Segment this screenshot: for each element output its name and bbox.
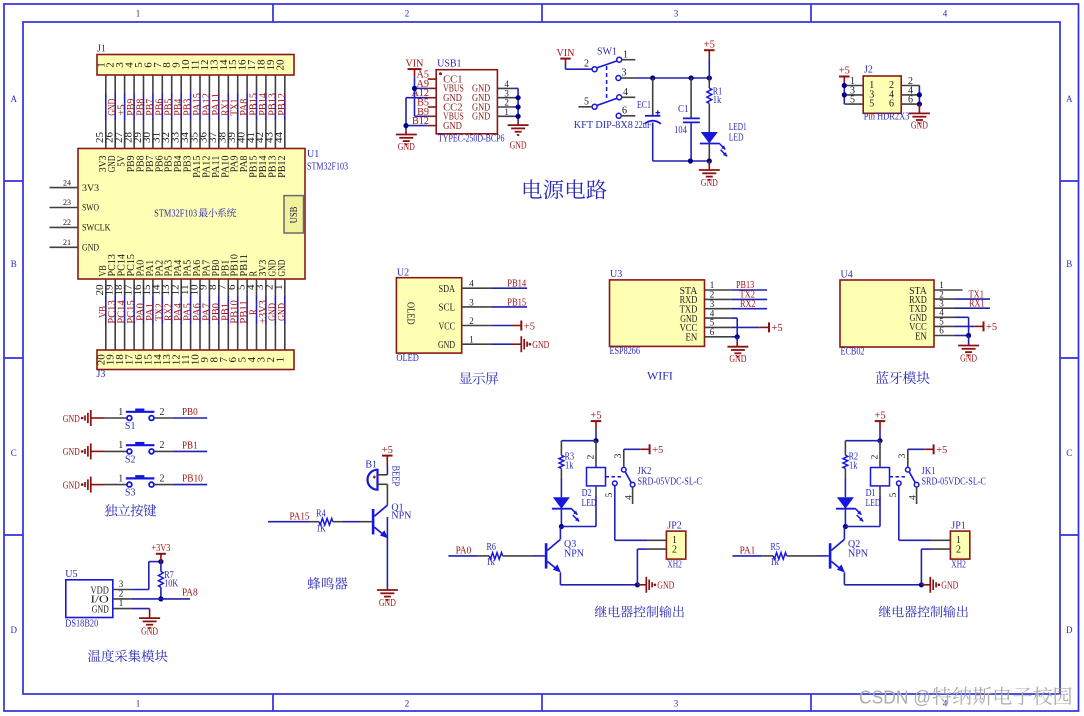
svg-text:GND: GND xyxy=(63,447,80,458)
svg-text:2: 2 xyxy=(870,454,880,459)
svg-text:Pin HDR2X3: Pin HDR2X3 xyxy=(864,112,910,123)
svg-text:4: 4 xyxy=(909,495,919,500)
svg-text:EN: EN xyxy=(686,333,698,344)
svg-text:6: 6 xyxy=(889,99,894,110)
svg-text:NPN: NPN xyxy=(564,549,584,560)
svg-text:R4: R4 xyxy=(316,509,326,520)
svg-text:PB12: PB12 xyxy=(277,93,288,116)
svg-text:+5: +5 xyxy=(772,323,783,334)
svg-text:U2: U2 xyxy=(397,268,409,279)
svg-text:2: 2 xyxy=(405,9,410,19)
svg-text:NPN: NPN xyxy=(391,511,411,522)
svg-text:A: A xyxy=(10,94,17,104)
svg-text:KFT DIP-8X8: KFT DIP-8X8 xyxy=(574,120,633,131)
svg-text:CSDN @: CSDN @ xyxy=(859,687,931,708)
svg-text:LED1: LED1 xyxy=(729,122,747,133)
svg-text:1k: 1k xyxy=(770,557,779,568)
svg-text:WIFI: WIFI xyxy=(647,369,673,383)
svg-text:3: 3 xyxy=(469,297,474,307)
svg-text:24: 24 xyxy=(63,178,71,187)
svg-text:PA1: PA1 xyxy=(740,545,756,556)
svg-text:ECB02: ECB02 xyxy=(841,347,865,358)
svg-text:GND: GND xyxy=(729,354,746,365)
svg-text:44: 44 xyxy=(273,132,285,144)
svg-text:S1: S1 xyxy=(125,421,136,432)
svg-text:23: 23 xyxy=(63,198,71,207)
svg-text:GND: GND xyxy=(63,480,80,491)
svg-text:NPN: NPN xyxy=(848,549,868,560)
svg-text:SWCLK: SWCLK xyxy=(82,224,111,234)
svg-text:1k: 1k xyxy=(713,95,722,106)
svg-text:D: D xyxy=(1066,625,1073,635)
svg-text:5: 5 xyxy=(869,99,874,110)
svg-text:GND: GND xyxy=(63,414,80,425)
svg-text:+5: +5 xyxy=(382,445,393,456)
svg-text:2: 2 xyxy=(160,440,165,451)
svg-text:XH2: XH2 xyxy=(951,559,966,570)
svg-text:J3: J3 xyxy=(97,369,106,380)
svg-text:U4: U4 xyxy=(841,270,853,281)
svg-text:JK2: JK2 xyxy=(638,466,652,477)
svg-text:S2: S2 xyxy=(125,454,136,465)
svg-text:6: 6 xyxy=(939,326,944,336)
svg-text:TYPEC-250D-BCP6: TYPEC-250D-BCP6 xyxy=(438,134,505,145)
svg-text:USB: USB xyxy=(289,206,300,223)
svg-text:2: 2 xyxy=(586,454,596,459)
svg-text:GND: GND xyxy=(960,354,977,365)
svg-text:GND: GND xyxy=(438,340,455,351)
svg-text:GND: GND xyxy=(398,142,415,153)
svg-text:2: 2 xyxy=(672,544,677,555)
svg-text:GND: GND xyxy=(379,598,396,609)
svg-text:PB14: PB14 xyxy=(507,279,526,290)
svg-text:1: 1 xyxy=(504,107,509,117)
svg-text:PB12: PB12 xyxy=(277,156,288,178)
svg-text:6: 6 xyxy=(622,106,627,117)
svg-text:22: 22 xyxy=(63,218,71,227)
svg-text:EN: EN xyxy=(915,331,927,342)
svg-text:PA8: PA8 xyxy=(182,588,198,599)
svg-text:LED: LED xyxy=(729,133,744,144)
svg-text:B1: B1 xyxy=(365,460,377,471)
svg-text:1k: 1k xyxy=(849,460,858,471)
svg-text:ESP8266: ESP8266 xyxy=(610,346,641,357)
svg-text:5: 5 xyxy=(605,492,615,497)
svg-text:2: 2 xyxy=(956,544,961,555)
svg-text:GND: GND xyxy=(141,627,158,638)
svg-text:6: 6 xyxy=(710,327,715,337)
svg-text:SRD-05VDC-SL-C: SRD-05VDC-SL-C xyxy=(638,477,703,488)
svg-text:D: D xyxy=(10,625,17,635)
svg-text:1: 1 xyxy=(273,285,285,291)
svg-text:GND: GND xyxy=(277,303,288,321)
svg-text:2: 2 xyxy=(469,316,474,326)
svg-text:EC1: EC1 xyxy=(637,100,651,111)
svg-text:1: 1 xyxy=(623,50,628,61)
svg-text:3: 3 xyxy=(674,699,679,709)
svg-text:6: 6 xyxy=(908,95,913,106)
svg-text:1k: 1k xyxy=(486,557,495,568)
svg-text:RX2: RX2 xyxy=(740,299,756,310)
svg-text:+3V3: +3V3 xyxy=(151,543,170,554)
svg-text:PB1: PB1 xyxy=(182,440,198,451)
svg-text:GND: GND xyxy=(911,120,928,131)
svg-text:4: 4 xyxy=(625,495,635,500)
svg-text:JP1: JP1 xyxy=(951,520,965,531)
svg-text:+5: +5 xyxy=(590,410,601,421)
svg-text:SRD-05VDC-SL-C: SRD-05VDC-SL-C xyxy=(922,477,987,488)
svg-text:LED: LED xyxy=(582,498,597,509)
svg-text:JP2: JP2 xyxy=(667,520,681,531)
svg-text:1k: 1k xyxy=(565,460,574,471)
svg-text:2: 2 xyxy=(160,407,165,418)
svg-text:1: 1 xyxy=(136,699,141,709)
svg-text:22uF: 22uF xyxy=(635,120,652,131)
svg-text:4: 4 xyxy=(943,9,948,19)
svg-text:3: 3 xyxy=(898,453,908,458)
svg-text:VIN: VIN xyxy=(557,48,575,59)
svg-text:+5: +5 xyxy=(936,445,947,456)
svg-text:+5: +5 xyxy=(874,410,885,421)
svg-text:BEEP: BEEP xyxy=(390,466,401,487)
svg-text:SDA: SDA xyxy=(439,284,456,295)
svg-text:GND: GND xyxy=(510,141,527,152)
svg-text:5: 5 xyxy=(584,96,589,107)
svg-text:GND: GND xyxy=(472,112,490,123)
svg-text:3: 3 xyxy=(622,68,627,79)
svg-text:1: 1 xyxy=(118,473,123,484)
svg-text:GND: GND xyxy=(941,581,958,592)
svg-text:STM32F103: STM32F103 xyxy=(307,162,348,173)
svg-text:B: B xyxy=(11,259,17,269)
svg-text:GND: GND xyxy=(82,244,99,254)
svg-text:OLED: OLED xyxy=(396,353,419,364)
svg-text:104: 104 xyxy=(674,125,687,136)
svg-text:C: C xyxy=(11,448,17,458)
svg-text:LED: LED xyxy=(866,498,881,509)
svg-text:+5: +5 xyxy=(839,66,850,77)
svg-text:OLED: OLED xyxy=(405,302,416,325)
svg-text:2: 2 xyxy=(405,699,410,709)
svg-text:+5: +5 xyxy=(524,321,535,332)
svg-text:5: 5 xyxy=(850,95,855,106)
svg-text:R6: R6 xyxy=(487,542,497,553)
svg-text:10K: 10K xyxy=(164,579,179,590)
svg-text:S3: S3 xyxy=(125,488,136,499)
svg-text:PB10: PB10 xyxy=(182,474,203,485)
svg-text:GND: GND xyxy=(92,604,109,615)
svg-text:21: 21 xyxy=(63,238,71,247)
svg-text:U1: U1 xyxy=(307,149,319,160)
svg-text:1: 1 xyxy=(469,335,474,345)
svg-text:RX1: RX1 xyxy=(969,298,985,309)
svg-text:1K: 1K xyxy=(316,524,326,535)
svg-text:1: 1 xyxy=(274,357,286,363)
svg-text:XH2: XH2 xyxy=(667,559,682,570)
svg-text:JK1: JK1 xyxy=(922,466,936,477)
svg-text:3: 3 xyxy=(674,9,679,19)
svg-text:J1: J1 xyxy=(97,44,106,55)
svg-text:PA0: PA0 xyxy=(456,545,472,556)
svg-text:GND: GND xyxy=(657,581,674,592)
svg-text:VCC: VCC xyxy=(439,321,456,332)
svg-text:3V3: 3V3 xyxy=(82,184,99,194)
svg-text:5: 5 xyxy=(889,492,899,497)
svg-text:U3: U3 xyxy=(610,269,622,280)
svg-text:U5: U5 xyxy=(65,569,77,580)
svg-text:1: 1 xyxy=(118,440,123,451)
svg-text:GND: GND xyxy=(701,178,718,189)
svg-text:SWO: SWO xyxy=(82,204,99,214)
svg-text:STM32F103: STM32F103 xyxy=(154,209,197,220)
svg-text:SW1: SW1 xyxy=(597,47,617,58)
svg-text:2: 2 xyxy=(584,59,589,70)
svg-text:VIN: VIN xyxy=(406,58,424,69)
svg-text:3: 3 xyxy=(614,453,624,458)
svg-text:SCL: SCL xyxy=(439,303,456,314)
svg-text:C1: C1 xyxy=(678,104,689,115)
svg-text:PB15: PB15 xyxy=(507,297,526,308)
svg-text:PA15: PA15 xyxy=(290,511,310,522)
svg-text:4: 4 xyxy=(623,87,628,98)
svg-text:+5: +5 xyxy=(986,322,997,333)
svg-text:1: 1 xyxy=(118,407,123,418)
svg-text:+5: +5 xyxy=(704,39,715,50)
svg-text:PB0: PB0 xyxy=(182,407,198,418)
svg-text:DS18B20: DS18B20 xyxy=(65,619,98,630)
svg-text:2: 2 xyxy=(160,473,165,484)
svg-text:GND: GND xyxy=(277,259,288,276)
svg-text:GND: GND xyxy=(532,340,549,351)
svg-text:B: B xyxy=(1066,259,1072,269)
svg-text:1: 1 xyxy=(136,9,141,19)
svg-text:R5: R5 xyxy=(771,542,781,553)
svg-text:USB1: USB1 xyxy=(437,59,461,70)
svg-text:A: A xyxy=(1066,94,1073,104)
svg-text:C: C xyxy=(1066,448,1072,458)
svg-text:+5: +5 xyxy=(652,445,663,456)
svg-text:20: 20 xyxy=(274,59,286,71)
svg-text:4: 4 xyxy=(469,279,474,289)
svg-text:GND: GND xyxy=(443,121,462,132)
svg-text:J2: J2 xyxy=(864,65,873,76)
